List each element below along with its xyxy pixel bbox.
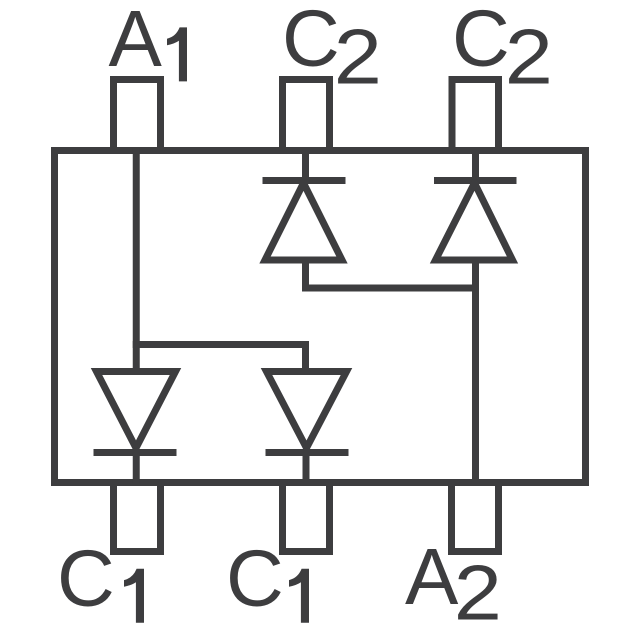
diode D4 cathode bar (top right) [434, 177, 517, 184]
pin C1 (bottom middle pin box) [283, 483, 330, 552]
svg-text:C: C [452, 0, 510, 83]
diode D3 triangle (top middle, cathode up) [265, 183, 342, 260]
svg-text:C: C [226, 534, 284, 623]
pin A1 (top left pin box) [114, 80, 161, 151]
package outline [55, 151, 586, 483]
label A1 subscript 1 [167, 27, 187, 81]
label C1 left subscript 1 [124, 569, 144, 623]
svg-text:C: C [282, 0, 340, 83]
pin C2 (top right pin box) [452, 80, 499, 151]
svg-text:2: 2 [505, 13, 553, 100]
wire A1 vertical from pin A1 to D1 anode [133, 148, 140, 372]
svg-text:A: A [109, 0, 163, 83]
diode D1 cathode bar [94, 449, 177, 456]
pin C2 (top middle pin box) [283, 80, 330, 151]
wire D1 cathode to pin C1 left [133, 453, 140, 484]
diode D4 triangle (top right, cathode up) [436, 183, 513, 260]
label C1 middle subscript 1 [289, 569, 309, 623]
wire D3 anode down stub [302, 260, 309, 288]
pin C1 (bottom left pin box) [114, 483, 161, 552]
wire pin C2 middle to D3 cathode [302, 148, 309, 181]
diode D2 cathode bar [266, 449, 349, 456]
diode D3 cathode bar (top middle) [263, 177, 346, 184]
diode D1 triangle (bottom left, cathode down) [97, 372, 176, 449]
wire D2 cathode to pin C1 middle [303, 453, 310, 484]
svg-text:C: C [57, 534, 115, 623]
svg-text:A: A [405, 532, 459, 621]
svg-text:2: 2 [454, 549, 502, 636]
wire D4 anode down to pin A2 [472, 260, 479, 483]
wire stub down to D2 anode [302, 345, 309, 373]
pin A2 (bottom right pin box) [452, 483, 499, 552]
wire A1 horizontal branch to D2 anode [133, 341, 309, 348]
svg-text:2: 2 [334, 13, 382, 100]
wire A2 horizontal connecting D3 anode to D4 anode net [302, 285, 479, 292]
diode D2 triangle (bottom middle, cathode down) [267, 372, 347, 449]
wire pin C2 right to D4 cathode [472, 148, 479, 181]
